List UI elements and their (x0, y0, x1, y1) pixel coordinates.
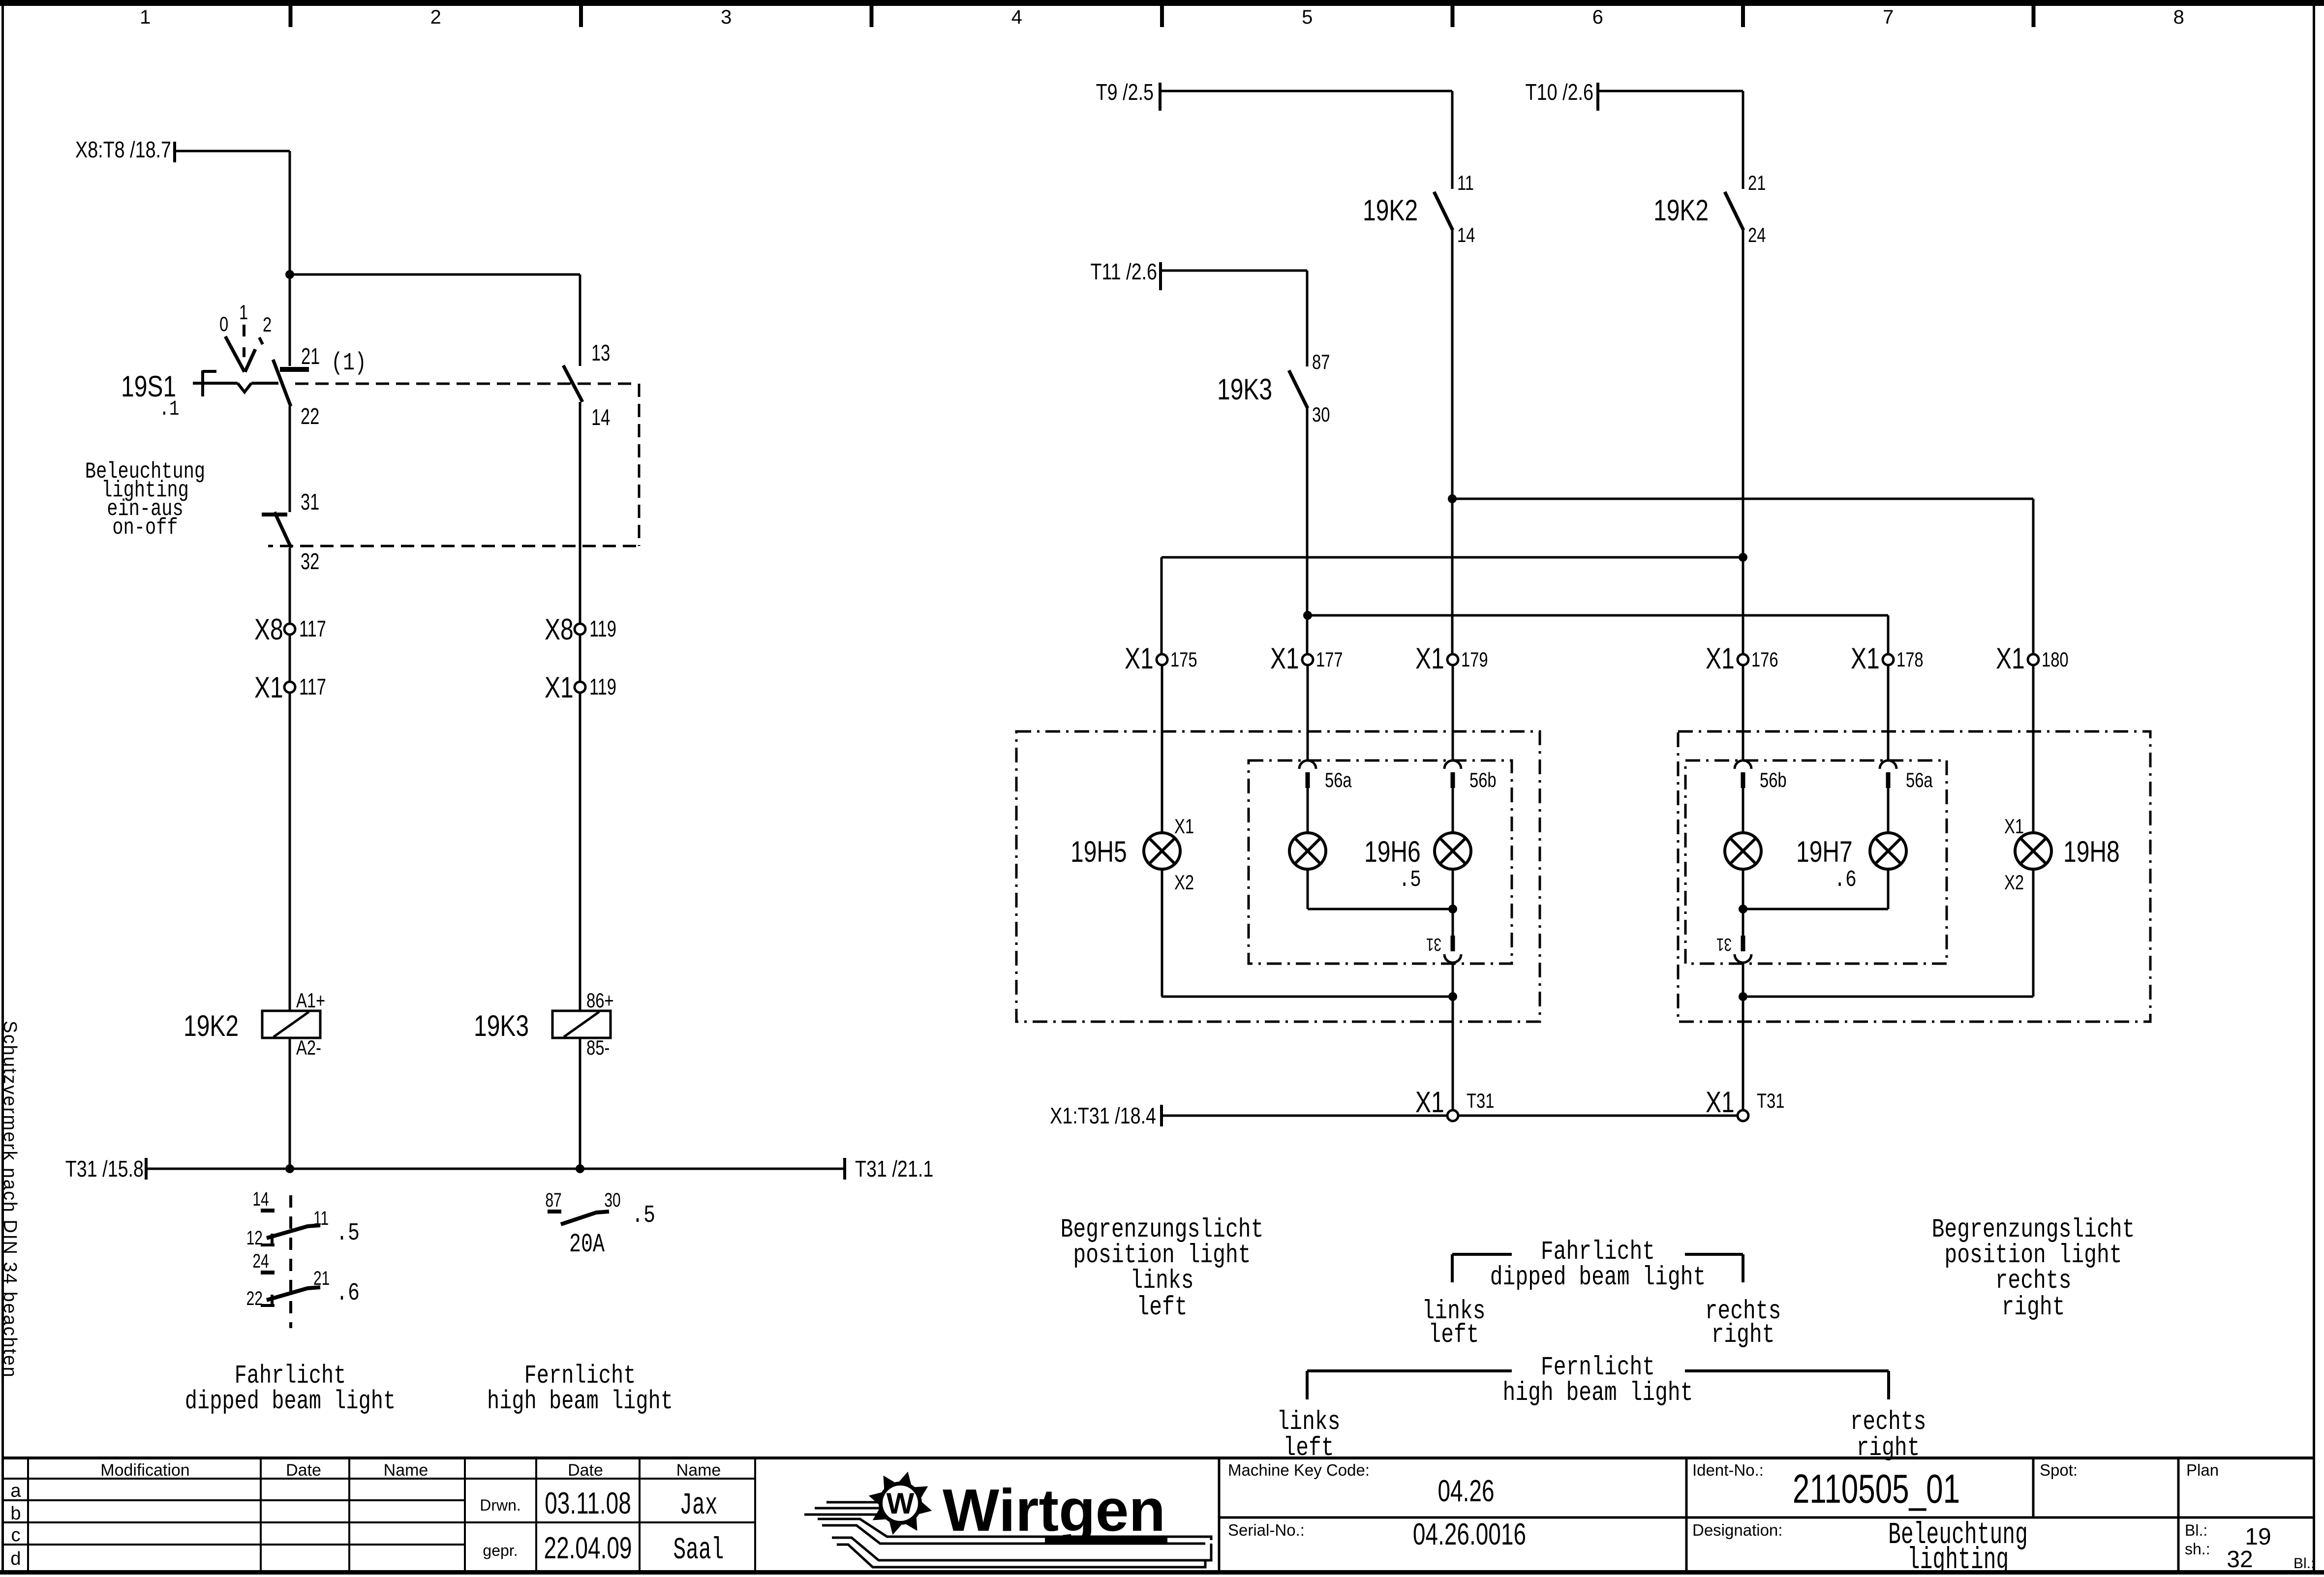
svg-text:dipped beam light: dipped beam light (185, 1387, 396, 1417)
svg-text:Fahrlicht: Fahrlicht (235, 1362, 346, 1391)
svg-text:21: 21 (1748, 171, 1766, 194)
svg-text:W: W (887, 1487, 915, 1520)
svg-text:X1: X1 (1706, 642, 1735, 675)
svg-text:right: right (1712, 1320, 1775, 1350)
svg-text:19H8: 19H8 (2063, 835, 2120, 868)
svg-text:.6: .6 (1834, 866, 1857, 893)
svg-text:24: 24 (252, 1250, 269, 1272)
svg-text:0: 0 (219, 312, 228, 335)
svg-text:X1: X1 (545, 671, 574, 704)
svg-text:86+: 86+ (586, 989, 614, 1012)
svg-text:X1: X1 (2004, 815, 2024, 838)
svg-text:Saal: Saal (673, 1533, 724, 1568)
svg-text:19H6: 19H6 (1364, 835, 1421, 868)
svg-text:T10 /2.6: T10 /2.6 (1526, 79, 1593, 104)
svg-text:T31 /21.1: T31 /21.1 (855, 1156, 933, 1181)
svg-text:179: 179 (1461, 648, 1488, 671)
svg-text:19K3: 19K3 (1217, 373, 1272, 406)
svg-text:04.26: 04.26 (1437, 1474, 1494, 1508)
svg-text:19K2: 19K2 (1363, 194, 1418, 227)
svg-text:5: 5 (1302, 6, 1313, 28)
svg-text:14: 14 (1457, 223, 1475, 246)
svg-text:Bl.:: Bl.: (2185, 1521, 2207, 1539)
svg-text:2: 2 (430, 6, 441, 28)
svg-text:22: 22 (246, 1288, 263, 1309)
svg-text:14: 14 (252, 1188, 269, 1210)
svg-text:X1: X1 (1706, 1086, 1735, 1119)
svg-text:X1: X1 (1174, 815, 1194, 838)
svg-text:04.26.0016: 04.26.0016 (1413, 1517, 1526, 1551)
svg-text:.6: .6 (336, 1279, 360, 1307)
svg-text:Drwn.: Drwn. (480, 1496, 521, 1514)
svg-text:X8: X8 (254, 613, 283, 646)
svg-text:2110505_01: 2110505_01 (1793, 1467, 1960, 1512)
svg-text:X8: X8 (545, 613, 574, 646)
svg-text:56a: 56a (1906, 768, 1933, 791)
svg-text:31: 31 (301, 489, 319, 515)
svg-text:X1: X1 (1125, 642, 1154, 675)
svg-text:T9 /2.5: T9 /2.5 (1096, 79, 1154, 104)
svg-text:T31: T31 (1467, 1089, 1494, 1112)
svg-text:85-: 85- (586, 1036, 610, 1059)
svg-text:c: c (11, 1525, 21, 1546)
svg-text:22.04.09: 22.04.09 (544, 1531, 632, 1565)
svg-text:Machine Key Code:: Machine Key Code: (1228, 1461, 1370, 1479)
svg-text:left: left (1136, 1292, 1187, 1323)
svg-text:Date: Date (568, 1461, 603, 1480)
svg-text:d: d (10, 1548, 21, 1569)
svg-text:X2: X2 (2004, 871, 2024, 894)
svg-text:Spot:: Spot: (2040, 1461, 2078, 1479)
svg-text:Date: Date (286, 1461, 321, 1480)
svg-text:20A: 20A (569, 1230, 605, 1260)
svg-text:177: 177 (1316, 648, 1343, 671)
svg-text:Modification: Modification (100, 1461, 189, 1480)
svg-text:2: 2 (263, 313, 272, 336)
svg-text:Name: Name (384, 1461, 428, 1480)
svg-text:32: 32 (2227, 1547, 2253, 1573)
svg-text:lighting: lighting (1907, 1543, 2009, 1575)
svg-text:.1: .1 (159, 397, 180, 422)
svg-text:12: 12 (246, 1227, 263, 1249)
svg-text:X1: X1 (1270, 642, 1299, 675)
svg-text:high beam light: high beam light (487, 1387, 673, 1417)
svg-text:A1+: A1+ (296, 989, 325, 1012)
svg-text:dipped beam light: dipped beam light (1490, 1262, 1706, 1293)
svg-text:19K3: 19K3 (474, 1009, 529, 1042)
svg-text:87: 87 (545, 1189, 561, 1211)
svg-text:b: b (10, 1503, 21, 1524)
svg-text:24: 24 (1748, 223, 1766, 246)
svg-text:left: left (1283, 1433, 1334, 1463)
svg-text:31: 31 (1426, 935, 1441, 954)
svg-text:T31 /15.8: T31 /15.8 (65, 1156, 144, 1181)
svg-text:left: left (1428, 1320, 1479, 1350)
svg-text:Schutzvermerk nach DIN 34 beac: Schutzvermerk nach DIN 34 beachten (0, 1021, 20, 1378)
svg-text:32: 32 (301, 548, 319, 574)
svg-text:a: a (10, 1481, 21, 1501)
svg-text:(1): (1) (331, 349, 367, 377)
svg-text:A2-: A2- (296, 1036, 321, 1059)
svg-text:X1: X1 (1415, 642, 1444, 675)
svg-text:119: 119 (589, 616, 616, 641)
svg-text:56a: 56a (1325, 768, 1352, 791)
svg-text:176: 176 (1751, 648, 1778, 671)
svg-text:175: 175 (1170, 648, 1197, 671)
svg-text:1: 1 (140, 6, 151, 28)
svg-text:19H5: 19H5 (1070, 835, 1127, 868)
svg-text:14: 14 (591, 404, 610, 430)
svg-text:31: 31 (1716, 935, 1732, 954)
svg-text:13: 13 (591, 340, 610, 365)
svg-text:19K2: 19K2 (183, 1009, 239, 1042)
svg-text:7: 7 (1883, 6, 1894, 28)
svg-text:high beam light: high beam light (1503, 1378, 1693, 1408)
svg-text:8: 8 (2173, 6, 2184, 28)
svg-text:T11 /2.6: T11 /2.6 (1090, 259, 1157, 284)
svg-text:T31: T31 (1757, 1089, 1784, 1112)
svg-text:Plan: Plan (2186, 1461, 2219, 1479)
svg-text:1: 1 (239, 301, 248, 324)
svg-text:117: 117 (299, 674, 326, 699)
svg-text:6: 6 (1592, 6, 1603, 28)
svg-text:19H7: 19H7 (1796, 835, 1853, 868)
svg-text:X2: X2 (1174, 871, 1194, 894)
svg-text:X1: X1 (254, 671, 283, 704)
svg-text:Jax: Jax (679, 1488, 717, 1523)
svg-text:gepr.: gepr. (483, 1542, 518, 1559)
svg-text:X1: X1 (1415, 1086, 1444, 1119)
svg-text:on-off: on-off (112, 515, 178, 541)
svg-text:links: links (1131, 1266, 1194, 1296)
svg-text:119: 119 (589, 674, 616, 699)
svg-text:X1: X1 (1851, 642, 1880, 675)
svg-text:117: 117 (299, 616, 326, 641)
svg-text:178: 178 (1896, 648, 1924, 671)
svg-text:19K2: 19K2 (1653, 194, 1709, 227)
svg-text:X1:T31 /18.4: X1:T31 /18.4 (1050, 1103, 1156, 1128)
svg-text:Bl.:: Bl.: (2293, 1555, 2315, 1572)
svg-text:3: 3 (721, 6, 732, 28)
svg-text:30: 30 (1312, 403, 1330, 426)
svg-text:4: 4 (1011, 6, 1022, 28)
svg-text:56b: 56b (1469, 768, 1497, 791)
svg-text:03.11.08: 03.11.08 (545, 1486, 631, 1520)
svg-text:Wirtgen: Wirtgen (943, 1477, 1165, 1544)
svg-text:21: 21 (301, 343, 320, 369)
svg-text:22: 22 (301, 403, 319, 429)
svg-text:30: 30 (604, 1189, 620, 1211)
svg-text:right: right (1857, 1433, 1920, 1463)
svg-text:Fernlicht: Fernlicht (524, 1362, 636, 1391)
svg-text:sh.:: sh.: (2185, 1540, 2210, 1558)
svg-text:Serial-No.:: Serial-No.: (1228, 1521, 1305, 1539)
svg-text:180: 180 (2042, 648, 2069, 671)
svg-text:right: right (2002, 1292, 2065, 1323)
svg-text:Ident-No.:: Ident-No.: (1692, 1461, 1764, 1479)
svg-text:X8:T8 /18.7: X8:T8 /18.7 (75, 137, 171, 162)
svg-text:11: 11 (1457, 171, 1474, 194)
svg-text:87: 87 (1312, 350, 1330, 373)
svg-text:.5: .5 (336, 1219, 360, 1247)
svg-text:Designation:: Designation: (1692, 1521, 1782, 1539)
svg-text:56b: 56b (1760, 768, 1787, 791)
svg-text:.5: .5 (632, 1201, 655, 1229)
svg-text:Name: Name (676, 1461, 721, 1480)
svg-text:X1: X1 (1996, 642, 2025, 675)
svg-text:rechts: rechts (1995, 1266, 2072, 1296)
svg-text:.5: .5 (1399, 866, 1421, 893)
